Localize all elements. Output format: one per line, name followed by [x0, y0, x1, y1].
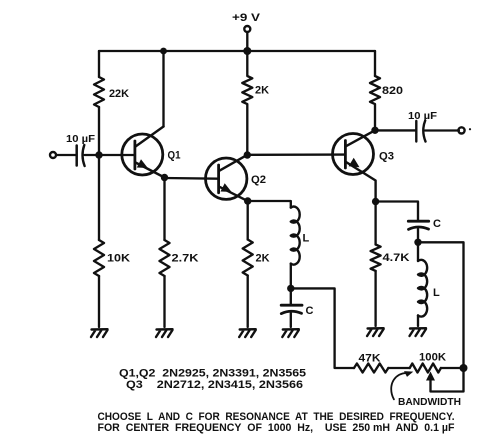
wire C2-L2 junction to feedback column	[418, 242, 464, 368]
capacitor C1	[281, 305, 313, 317]
svg-text:Q3: Q3	[379, 151, 394, 163]
svg-text:Q1: Q1	[168, 150, 181, 162]
wire 2K to ground	[247, 276, 249, 328]
wire rail corner down-left column	[98, 51, 100, 77]
bandwidth label with arrow	[391, 371, 461, 408]
node input-base junction	[95, 151, 102, 158]
node Q2 emitter junction	[244, 197, 251, 204]
wire rail corner to 820	[374, 51, 376, 76]
node L1-C1 junction	[287, 285, 294, 292]
wire Q1 collector to rail	[162, 51, 164, 127]
svg-text:4.7K: 4.7K	[383, 252, 410, 264]
wire 47K to 100K pot	[388, 367, 409, 369]
wire Q2 collector to Q3 base	[247, 153, 345, 156]
wire Q1 emitter down to 2.7K	[163, 178, 165, 241]
speck	[469, 128, 471, 130]
wire input terminal to C-in	[56, 154, 76, 156]
node Q1 emitter junction	[161, 174, 168, 181]
transistor Q1	[122, 127, 181, 178]
svg-text:Q1,Q2 2N2925, 2N3391, 2N3565: Q1,Q2 2N2925, 2N3391, 2N3565	[119, 368, 306, 380]
wire Q3 collector to C-out	[375, 129, 416, 131]
svg-text:BANDWIDTH: BANDWIDTH	[398, 396, 461, 408]
wire feedback from L1-C1 junction	[291, 288, 354, 368]
svg-text:100K: 100K	[419, 352, 446, 364]
svg-text:+9 V: +9 V	[232, 12, 261, 24]
wire from +9V terminal to rail	[246, 32, 248, 51]
svg-text:L: L	[303, 233, 310, 245]
wire C-out to output terminal	[425, 129, 459, 131]
wire base node down to 10K	[98, 155, 100, 240]
svg-text:10K: 10K	[107, 253, 130, 265]
wire Q3 emitter to C2	[376, 202, 418, 221]
wire C2 to junction	[417, 229, 419, 242]
node Q2 collector junction	[244, 151, 251, 158]
resistor R8 47K	[354, 353, 388, 373]
node Q3 collector junction	[371, 127, 378, 134]
ground under 2.7K	[156, 329, 173, 337]
capacitor C2	[408, 218, 441, 230]
svg-text:820: 820	[382, 85, 403, 97]
ground under L2	[410, 328, 427, 336]
resistor R6 820	[370, 76, 403, 130]
svg-text:2K: 2K	[256, 253, 270, 265]
wire 10K to ground	[98, 276, 100, 327]
resistor R2 10K	[94, 240, 130, 276]
wire C-in to base node	[85, 154, 100, 156]
wire L1-C1 junction to C1	[290, 288, 292, 304]
svg-text:2.7K: 2.7K	[172, 253, 199, 265]
wire Q2 emitter to L1	[248, 201, 291, 208]
wire 2.7K to ground	[163, 276, 165, 327]
svg-text:10 µF: 10 µF	[408, 110, 438, 122]
svg-text:2K: 2K	[255, 85, 269, 97]
resistor R3 2.7K	[160, 240, 199, 276]
resistor R1 22K	[94, 77, 129, 107]
output terminal	[458, 127, 464, 133]
capacitor C-out 10uF	[408, 110, 438, 142]
wire pot right end to feedback node	[441, 367, 464, 369]
resistor R5 2K lower	[243, 240, 270, 276]
svg-text:47K: 47K	[359, 353, 381, 365]
ground under 4.7K	[367, 328, 384, 336]
wire 4.7K to ground	[374, 271, 376, 326]
node C2-L2 junction	[414, 239, 421, 246]
ground under C1	[282, 329, 299, 337]
wire L1 to junction	[290, 264, 292, 289]
capacitor C-in 10uF	[66, 133, 96, 166]
svg-text:C: C	[306, 305, 314, 317]
wire top supply rail	[99, 50, 375, 52]
wire base node to Q1 base	[99, 154, 135, 156]
node Q3 emitter junction	[372, 198, 379, 205]
node rail-2K junction	[243, 47, 251, 55]
inductor L2	[418, 260, 440, 317]
svg-text:10 µF: 10 µF	[66, 133, 96, 145]
transistor Q3	[333, 130, 395, 201]
svg-text:Q3 2N2712, 2N3415, 2N3566: Q3 2N2712, 2N3415, 2N3566	[126, 379, 303, 391]
node rail-Q1 collector junction	[160, 48, 167, 55]
power terminal +9V	[232, 12, 261, 32]
input terminal	[50, 152, 56, 158]
wire Q2 emitter down to 2K	[247, 201, 249, 240]
svg-text:22K: 22K	[109, 88, 129, 100]
wire L2 to ground	[417, 315, 419, 326]
wire Q1 emitter to Q2 base	[165, 177, 219, 180]
resistor R7 4.7K	[371, 245, 410, 271]
svg-text:FOR CENTER FREQUENCY OF 10: FOR CENTER FREQUENCY OF 1000 Hz, USE 250…	[98, 422, 455, 434]
ground under 2K lower	[239, 329, 256, 337]
inductor L1	[291, 207, 310, 265]
node feedback junction	[460, 364, 468, 372]
svg-text:L: L	[433, 287, 440, 299]
potentiometer R9 100K	[410, 352, 464, 392]
svg-text:C: C	[433, 218, 441, 230]
resistor R4 2K upper	[242, 51, 269, 155]
transistor Q2	[206, 155, 267, 201]
wire 22K to base node	[98, 107, 100, 155]
ground under 10K	[91, 329, 108, 337]
wire Q3 emitter down to 4.7K	[374, 202, 376, 245]
wire C1 to ground	[290, 313, 292, 327]
svg-text:Q2: Q2	[251, 174, 266, 186]
wire junction down to L2	[417, 242, 419, 261]
